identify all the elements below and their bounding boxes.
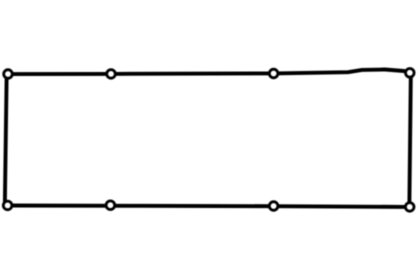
wire top edge [8, 70, 407, 75]
wire right edge [409, 77, 410, 202]
bolt hole top-right [406, 69, 415, 78]
bolt hole top 2 [107, 70, 116, 79]
bolt hole bottom-right [405, 203, 414, 212]
bolt hole bottom-left [3, 201, 12, 210]
bolt hole bottom 3 [269, 202, 278, 211]
wire bottom edge [8, 206, 406, 207]
bolt hole bottom 2 [106, 201, 115, 210]
bolt hole top 3 [269, 69, 278, 78]
wire left edge [5, 78, 7, 201]
bolt hole top-left [4, 70, 13, 79]
